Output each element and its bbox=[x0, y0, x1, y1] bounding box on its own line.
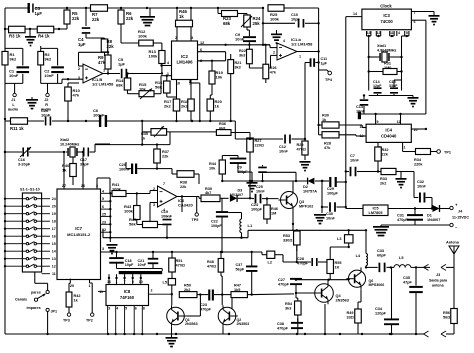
test point TP2 bbox=[86, 283, 94, 323]
connector J3 label bbox=[429, 273, 448, 288]
svg-text:L2: L2 bbox=[268, 261, 272, 265]
svg-text:56pF: 56pF bbox=[236, 267, 245, 271]
IC2 LM1496 bbox=[167, 36, 204, 86]
wire IC2 bottom pins bbox=[190, 80, 200, 122]
svg-text:4: 4 bbox=[102, 189, 104, 193]
svg-text:C35: C35 bbox=[403, 276, 410, 280]
resistor R39 bbox=[201, 187, 229, 202]
wire IC1.B plus input bbox=[0, 0, 1, 1]
svg-text:10k: 10k bbox=[209, 166, 216, 170]
wire xtal to IC7 pins bbox=[64, 144, 110, 185]
svg-text:9k2: 9k2 bbox=[45, 57, 52, 62]
capacitor C35 bbox=[403, 267, 423, 334]
svg-text:470µF: 470µF bbox=[397, 218, 409, 222]
inductor L2 bbox=[262, 251, 283, 264]
capacitor C4 bbox=[78, 7, 90, 47]
svg-text:11: 11 bbox=[397, 120, 401, 124]
svg-text:IC5: IC5 bbox=[372, 206, 379, 211]
svg-text:L1: L1 bbox=[248, 223, 253, 228]
capacitor C10 bbox=[291, 8, 320, 135]
svg-text:Xtal1: Xtal1 bbox=[377, 44, 386, 48]
svg-text:20: 20 bbox=[52, 204, 56, 208]
transistor Q2 bbox=[218, 295, 249, 334]
transistor Q5 bbox=[346, 268, 384, 309]
svg-text:C31: C31 bbox=[397, 214, 404, 218]
inductor L3 bbox=[337, 230, 353, 243]
svg-text:C19: C19 bbox=[161, 210, 168, 214]
resistor R50 bbox=[179, 284, 201, 298]
varactor D3 bbox=[230, 189, 253, 202]
svg-text:15: 15 bbox=[52, 242, 56, 246]
resistor R19 bbox=[209, 62, 224, 84]
svg-text:D1: D1 bbox=[427, 214, 432, 218]
svg-text:R56: R56 bbox=[443, 311, 450, 315]
svg-text:pares: pares bbox=[31, 291, 41, 295]
capacitor C33 bbox=[366, 249, 394, 272]
wire audio sum node bbox=[62, 78, 83, 83]
wire IC4 top pins bbox=[376, 114, 401, 124]
op-amp IC6 CA3420 bbox=[153, 182, 193, 212]
svg-text:L3: L3 bbox=[337, 237, 341, 241]
test point TP3 bbox=[63, 313, 71, 323]
svg-text:1µF: 1µF bbox=[321, 61, 328, 65]
svg-text:2N3563: 2N3563 bbox=[336, 298, 349, 302]
svg-text:22k: 22k bbox=[126, 16, 134, 21]
svg-text:R42: R42 bbox=[74, 294, 81, 298]
svg-text:TP3: TP3 bbox=[63, 319, 70, 323]
ground under R29 bbox=[300, 161, 311, 171]
wire x322 column bbox=[321, 180, 323, 208]
resistor R4 bbox=[37, 26, 54, 38]
svg-text:100pF: 100pF bbox=[211, 224, 222, 228]
svg-text:17: 17 bbox=[52, 227, 56, 231]
svg-text:C38: C38 bbox=[277, 322, 284, 326]
svg-text:R54: R54 bbox=[285, 302, 293, 306]
ground at IC1-b pin4 bbox=[271, 30, 282, 44]
svg-text:2k2: 2k2 bbox=[164, 104, 171, 109]
svg-text:J1: J1 bbox=[11, 98, 15, 102]
svg-text:MC145151-2: MC145151-2 bbox=[67, 232, 91, 237]
wire IC4 pin10 bbox=[411, 128, 427, 130]
thick bus bar above IC8 bbox=[117, 269, 163, 275]
svg-text:L5: L5 bbox=[399, 256, 403, 260]
wire xtal caps ground bbox=[369, 96, 419, 108]
svg-text:1µF: 1µF bbox=[118, 62, 126, 67]
svg-text:22k: 22k bbox=[107, 44, 115, 49]
wire bottom right arrow bbox=[441, 331, 454, 337]
ground near R6 bbox=[140, 8, 155, 26]
wire bottom ground bus bbox=[5, 333, 417, 335]
svg-text:10nF: 10nF bbox=[279, 149, 289, 153]
wire S1 left bus bbox=[4, 198, 23, 268]
svg-text:1k: 1k bbox=[62, 168, 67, 173]
op-amp IC1.B bbox=[273, 37, 313, 60]
svg-text:C7: C7 bbox=[350, 154, 355, 158]
svg-text:10pF: 10pF bbox=[291, 17, 301, 21]
svg-text:11: 11 bbox=[99, 290, 103, 294]
svg-text:C13: C13 bbox=[356, 105, 363, 109]
wire antenna down bbox=[441, 258, 454, 270]
svg-text:100k: 100k bbox=[124, 209, 134, 214]
resistor R55 bbox=[327, 260, 342, 280]
svg-text:3: 3 bbox=[108, 307, 110, 311]
svg-text:MPS3066: MPS3066 bbox=[369, 283, 385, 287]
IC7 pin3 wire bbox=[101, 247, 263, 253]
svg-text:ímpares: ímpares bbox=[27, 306, 41, 310]
svg-text:áudio: áudio bbox=[41, 108, 52, 112]
svg-text:100k: 100k bbox=[270, 17, 280, 22]
thick bar at IC4 bbox=[358, 112, 361, 120]
svg-text:antena: antena bbox=[432, 284, 445, 288]
wire left bus bbox=[4, 8, 6, 334]
resistor R42 bbox=[66, 279, 80, 313]
svg-text:10: 10 bbox=[176, 82, 180, 86]
resistor R5 bbox=[64, 8, 80, 29]
resistor R41 bbox=[110, 178, 158, 197]
svg-text:220k: 220k bbox=[414, 162, 423, 166]
svg-text:1N4007: 1N4007 bbox=[427, 218, 440, 222]
svg-text:S1-1–S1-10: S1-1–S1-10 bbox=[20, 188, 40, 192]
resistor R17 bbox=[164, 80, 180, 122]
svg-text:C16: C16 bbox=[18, 158, 25, 162]
svg-text:R38: R38 bbox=[180, 181, 187, 185]
svg-text:120pF: 120pF bbox=[375, 311, 387, 315]
svg-text:IC4: IC4 bbox=[385, 128, 392, 133]
svg-text:4.9648MHz: 4.9648MHz bbox=[377, 48, 397, 52]
IC3 74C00 bbox=[353, 4, 416, 36]
wire varactor tune rail bbox=[4, 144, 95, 153]
svg-text:R46: R46 bbox=[271, 207, 278, 211]
svg-text:2: 2 bbox=[151, 289, 153, 293]
resistor R25 bbox=[268, 5, 284, 22]
svg-text:7: 7 bbox=[163, 182, 165, 186]
svg-text:100k: 100k bbox=[138, 34, 148, 39]
svg-text:68k: 68k bbox=[223, 21, 231, 26]
svg-text:IC7: IC7 bbox=[75, 226, 82, 231]
svg-text:3: 3 bbox=[102, 247, 104, 251]
resistor R11 bbox=[10, 118, 28, 131]
pot R15 bbox=[128, 76, 162, 99]
capacitor C30 bbox=[322, 202, 347, 220]
svg-text:10nF: 10nF bbox=[256, 189, 265, 193]
svg-text:14: 14 bbox=[353, 12, 357, 16]
svg-text:D2: D2 bbox=[303, 185, 308, 189]
svg-text:4: 4 bbox=[116, 307, 118, 311]
capacitor C17 bbox=[80, 148, 90, 167]
wire q5 chain bbox=[330, 243, 350, 260]
svg-text:2: 2 bbox=[153, 187, 155, 191]
capacitor C25 bbox=[256, 165, 267, 193]
svg-text:6: 6 bbox=[102, 205, 104, 209]
svg-text:16: 16 bbox=[52, 234, 56, 238]
svg-text:TP4: TP4 bbox=[325, 78, 333, 82]
wire tune line y144 bbox=[95, 132, 170, 146]
svg-text:18: 18 bbox=[52, 219, 56, 223]
svg-text:470pF: 470pF bbox=[200, 307, 212, 311]
svg-text:C28: C28 bbox=[297, 257, 304, 261]
resistor R33 bbox=[370, 168, 401, 185]
wire mid column x345 from IC3 bbox=[346, 17, 362, 130]
resistor R14 bbox=[116, 72, 131, 93]
svg-text:22k: 22k bbox=[180, 185, 187, 189]
resistor R38 bbox=[157, 169, 199, 189]
wire IC3 bottom pins bbox=[367, 31, 409, 37]
wire q5 base bbox=[346, 279, 350, 280]
svg-text:5: 5 bbox=[125, 307, 127, 311]
svg-text:470pF: 470pF bbox=[277, 326, 289, 330]
svg-text:R31: R31 bbox=[384, 62, 391, 66]
svg-text:1: 1 bbox=[404, 146, 406, 150]
test point TP4 bbox=[319, 70, 333, 82]
svg-text:CD4040: CD4040 bbox=[381, 134, 397, 139]
wire y114 rail bbox=[361, 113, 426, 115]
svg-text:4: 4 bbox=[398, 31, 400, 35]
svg-text:100nF: 100nF bbox=[119, 167, 131, 171]
wire rail y237 bbox=[103, 229, 366, 239]
resistor R46 bbox=[176, 8, 193, 41]
svg-text:C30: C30 bbox=[326, 212, 333, 216]
svg-text:R50: R50 bbox=[184, 284, 191, 288]
resistor R44 bbox=[209, 156, 238, 182]
ground near d2 left bbox=[266, 172, 297, 182]
resistor R10 bbox=[65, 83, 81, 121]
svg-text:MV2107: MV2107 bbox=[230, 193, 243, 197]
resistor R18 bbox=[181, 80, 194, 122]
wire IC7 pin20 pin1 stubs bbox=[90, 280, 93, 284]
resistor R2 bbox=[38, 48, 52, 83]
capacitor C19 bbox=[161, 210, 173, 238]
svg-text:3k3: 3k3 bbox=[235, 65, 241, 69]
svg-text:R11 1k: R11 1k bbox=[10, 126, 24, 131]
antenna bbox=[446, 241, 460, 259]
capacitor C11 bbox=[305, 57, 328, 139]
svg-text:25k: 25k bbox=[253, 21, 261, 26]
svg-text:JP1: JP1 bbox=[51, 310, 58, 314]
svg-text:11: 11 bbox=[52, 272, 56, 276]
capacitor C32 bbox=[401, 172, 432, 209]
svg-text:J2: J2 bbox=[44, 98, 48, 102]
wire q4 stage bbox=[283, 245, 298, 263]
diode D1 bbox=[427, 205, 450, 222]
resistor R28 bbox=[319, 132, 367, 150]
svg-text:5: 5 bbox=[406, 31, 408, 35]
svg-text:100µF: 100µF bbox=[237, 170, 248, 174]
resistor R9 bbox=[98, 55, 111, 75]
resistor R47 bbox=[222, 284, 294, 312]
svg-text:22k: 22k bbox=[92, 17, 100, 22]
capacitor C9b bbox=[230, 156, 252, 182]
svg-text:10nF: 10nF bbox=[235, 37, 245, 42]
svg-text:9: 9 bbox=[377, 120, 379, 124]
ground audio jacks bbox=[26, 97, 38, 109]
svg-text:5: 5 bbox=[102, 197, 104, 201]
svg-text:470pF: 470pF bbox=[278, 282, 290, 286]
resistor R45 bbox=[129, 217, 163, 228]
svg-text:470Ω: 470Ω bbox=[207, 264, 216, 268]
svg-text:C33: C33 bbox=[377, 249, 384, 253]
svg-text:10nF: 10nF bbox=[326, 216, 336, 220]
jack J2 bbox=[41, 83, 52, 111]
test point TP5 bbox=[192, 213, 199, 222]
svg-text:Saída para: Saída para bbox=[429, 279, 448, 283]
capacitor C38 bbox=[277, 318, 303, 330]
IC4 CD4040 bbox=[360, 120, 418, 150]
svg-text:C32: C32 bbox=[417, 180, 424, 184]
svg-text:100pF: 100pF bbox=[251, 207, 263, 211]
wire top supply bus bbox=[5, 7, 292, 9]
svg-text:22k: 22k bbox=[72, 16, 80, 21]
svg-text:6: 6 bbox=[135, 307, 137, 311]
capacitor C6 bbox=[93, 108, 107, 127]
svg-text:47pF: 47pF bbox=[403, 280, 413, 284]
wire q3 top rail bbox=[249, 181, 251, 198]
wire q4 emitter bbox=[324, 304, 326, 334]
svg-text:10nF: 10nF bbox=[350, 158, 360, 162]
resistor R7 bbox=[91, 5, 108, 22]
resistor R20 bbox=[207, 85, 223, 122]
capacitor C5 bbox=[118, 57, 134, 78]
svg-text:R33: R33 bbox=[380, 177, 387, 181]
wire IC2 pin6 bbox=[198, 44, 227, 61]
crystal Xtal2 bbox=[60, 138, 80, 157]
svg-text:1µF: 1µF bbox=[78, 42, 86, 47]
svg-text:56k: 56k bbox=[129, 222, 136, 227]
svg-text:10µF: 10µF bbox=[125, 263, 134, 267]
svg-text:MPF102: MPF102 bbox=[299, 204, 313, 208]
svg-text:2: 2 bbox=[175, 36, 177, 40]
resistor R30 bbox=[319, 114, 367, 129]
capacitor C34 bbox=[375, 267, 399, 335]
svg-text:Canais: Canais bbox=[15, 298, 27, 302]
svg-text:R44: R44 bbox=[209, 162, 217, 166]
svg-text:47k: 47k bbox=[324, 146, 331, 150]
resistor R21 bbox=[228, 54, 241, 122]
svg-text:J3: J3 bbox=[436, 273, 440, 277]
svg-text:R51: R51 bbox=[176, 259, 183, 263]
svg-text:13: 13 bbox=[367, 31, 371, 35]
wire mid rail y121 bbox=[5, 120, 235, 139]
svg-text:C29: C29 bbox=[327, 187, 334, 191]
svg-text:R30: R30 bbox=[322, 114, 329, 118]
wire IC7 right bus to ground bbox=[107, 193, 118, 254]
svg-text:470Ω: 470Ω bbox=[297, 147, 306, 151]
svg-text:10nF: 10nF bbox=[138, 263, 147, 267]
svg-text:47k: 47k bbox=[98, 60, 106, 65]
svg-text:R28: R28 bbox=[324, 142, 331, 146]
svg-text:10.240MHz: 10.240MHz bbox=[60, 142, 80, 146]
resistor R48 bbox=[207, 252, 224, 295]
crystal Xtal1 bbox=[377, 44, 397, 62]
svg-text:2: 2 bbox=[78, 67, 80, 71]
svg-text:C24: C24 bbox=[251, 203, 259, 207]
capacitor C3 bbox=[28, 3, 43, 16]
svg-text:1M: 1M bbox=[271, 211, 276, 215]
transistor Q4 bbox=[313, 282, 349, 305]
svg-text:68k: 68k bbox=[116, 83, 123, 88]
svg-text:220Ω: 220Ω bbox=[255, 143, 264, 147]
svg-text:19: 19 bbox=[52, 212, 56, 216]
wire IC6 output bbox=[177, 195, 201, 212]
svg-text:Clock: Clock bbox=[380, 4, 392, 9]
capacitor C12 bbox=[235, 135, 305, 154]
svg-text:2N3563: 2N3563 bbox=[185, 322, 198, 326]
svg-text:R39: R39 bbox=[205, 187, 212, 191]
resistor R3 bbox=[9, 26, 26, 38]
svg-text:3k3: 3k3 bbox=[239, 53, 245, 57]
svg-text:R36: R36 bbox=[219, 122, 226, 126]
svg-text:R32: R32 bbox=[382, 148, 389, 152]
ground near R33 bbox=[396, 172, 407, 189]
svg-text:14: 14 bbox=[52, 249, 56, 253]
ground under R3 R4 bbox=[25, 29, 36, 46]
pot R24 bbox=[241, 14, 261, 28]
svg-text:22k: 22k bbox=[382, 152, 389, 156]
svg-text:47k: 47k bbox=[73, 93, 80, 98]
pot R35 bbox=[141, 121, 216, 140]
svg-text:TP2: TP2 bbox=[86, 319, 93, 323]
svg-text:3: 3 bbox=[78, 76, 80, 80]
svg-text:9k2: 9k2 bbox=[10, 57, 17, 62]
IC5 LM7805 bbox=[363, 205, 388, 216]
inductor L1 bbox=[228, 213, 253, 239]
svg-text:56K: 56K bbox=[155, 85, 162, 90]
svg-text:R47: R47 bbox=[234, 284, 241, 288]
ground under C30 area bbox=[314, 207, 326, 224]
svg-text:Antena: Antena bbox=[446, 241, 460, 245]
capacitor C22 bbox=[211, 198, 228, 253]
capacitor C13 bbox=[356, 94, 368, 114]
svg-text:2k2: 2k2 bbox=[181, 104, 188, 109]
svg-text:1k: 1k bbox=[215, 104, 220, 109]
resistor R31 bbox=[368, 62, 403, 75]
wire q3 emitter down bbox=[292, 208, 294, 225]
wire IC3 pin7 to ground bbox=[411, 12, 439, 26]
resistor R51 bbox=[169, 252, 185, 279]
svg-text:Q3: Q3 bbox=[299, 200, 304, 204]
wire R13 to C5 node bbox=[128, 72, 164, 74]
wire IC1.B feedback left bbox=[262, 7, 295, 48]
svg-text:R49: R49 bbox=[347, 311, 354, 315]
resistor R26 bbox=[263, 45, 277, 83]
svg-text:60pF: 60pF bbox=[377, 253, 387, 257]
svg-text:LM1496: LM1496 bbox=[176, 60, 193, 65]
wire y181 varicap line bbox=[221, 180, 307, 182]
svg-text:R4 1k: R4 1k bbox=[38, 34, 50, 39]
transistor Q3 MPF102 bbox=[279, 181, 314, 211]
wire power input rail bbox=[346, 208, 363, 210]
svg-text:1: 1 bbox=[88, 284, 90, 288]
ground under C9 bbox=[247, 180, 258, 193]
svg-text:R: R bbox=[45, 103, 48, 107]
capacitor C28 bbox=[283, 255, 327, 266]
svg-text:10nF: 10nF bbox=[44, 73, 54, 78]
svg-text:C23: C23 bbox=[200, 303, 207, 307]
svg-text:100µF: 100µF bbox=[327, 191, 339, 195]
resistor R27 bbox=[247, 138, 264, 181]
svg-text:1: 1 bbox=[299, 55, 301, 59]
IC7 right pin labels bbox=[101, 189, 112, 233]
capacitor C29 bbox=[327, 177, 347, 195]
trimmer C16 bbox=[18, 147, 31, 166]
ground bottom mid bbox=[166, 334, 178, 347]
svg-text:R27: R27 bbox=[255, 139, 262, 143]
wire R2 top bias bbox=[40, 46, 42, 48]
svg-text:IC8: IC8 bbox=[124, 289, 131, 294]
svg-text:3k3: 3k3 bbox=[285, 306, 291, 310]
capacitor C20 bbox=[119, 162, 157, 174]
svg-text:3: 3 bbox=[191, 36, 193, 40]
resistor R56 bbox=[443, 267, 457, 334]
